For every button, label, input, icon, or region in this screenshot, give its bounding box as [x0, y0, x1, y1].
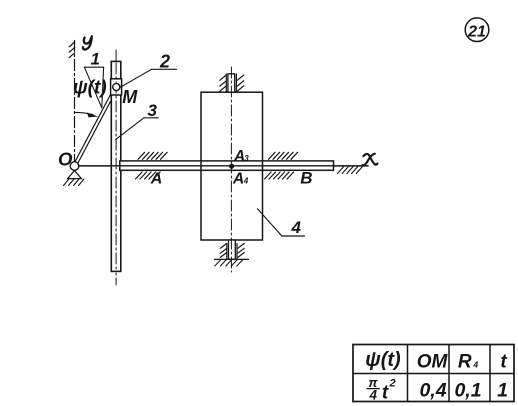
- svg-text:t: t: [382, 383, 389, 404]
- svg-text:O: O: [58, 149, 73, 170]
- svg-text:3: 3: [148, 101, 158, 120]
- svg-text:0,1: 0,1: [454, 380, 481, 402]
- svg-text:A: A: [232, 170, 244, 187]
- svg-text:4: 4: [369, 388, 378, 403]
- svg-text:ψ(t): ψ(t): [73, 78, 107, 99]
- svg-text:A: A: [150, 171, 163, 188]
- svg-text:1: 1: [497, 380, 508, 402]
- svg-text:0,4: 0,4: [419, 380, 446, 402]
- svg-text:4: 4: [243, 176, 249, 185]
- svg-text:1: 1: [91, 50, 100, 69]
- svg-text:OM: OM: [417, 352, 449, 373]
- svg-text:R: R: [458, 352, 472, 373]
- svg-text:2: 2: [159, 52, 170, 72]
- svg-text:4: 4: [291, 218, 302, 237]
- svg-text:t: t: [500, 352, 507, 373]
- svg-text:4: 4: [472, 360, 478, 370]
- svg-text:2: 2: [388, 378, 395, 390]
- svg-text:B: B: [300, 169, 312, 188]
- svg-text:3: 3: [244, 154, 249, 163]
- svg-text:M: M: [122, 87, 138, 107]
- svg-text:ψ(t): ψ(t): [365, 349, 401, 371]
- svg-text:21: 21: [467, 23, 486, 40]
